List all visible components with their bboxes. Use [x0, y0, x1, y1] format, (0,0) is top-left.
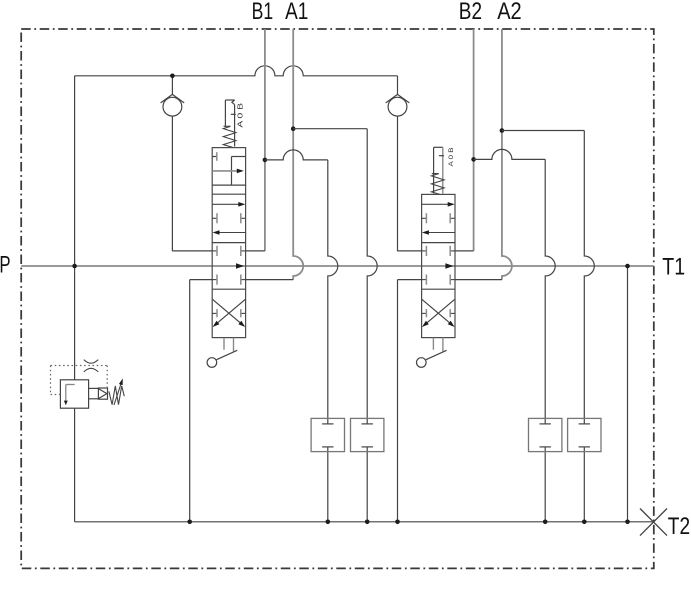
svg-text:T2: T2: [668, 513, 690, 540]
svg-text:A1: A1: [285, 0, 308, 25]
svg-text:A 0 B: A 0 B: [448, 148, 455, 167]
svg-text:A 0 B: A 0 B: [235, 103, 244, 128]
svg-text:B2: B2: [459, 0, 482, 25]
svg-text:T1: T1: [662, 253, 685, 280]
svg-text:B1: B1: [252, 0, 274, 25]
svg-text:P: P: [0, 252, 11, 279]
svg-text:A2: A2: [497, 0, 522, 25]
